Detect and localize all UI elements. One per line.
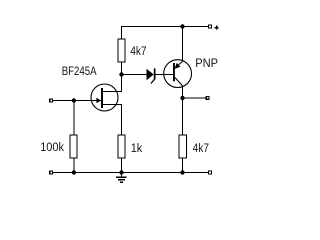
wire R1 to node <box>121 62 123 75</box>
transistor Q1 channel bar <box>101 88 103 108</box>
resistor R1 4k7 <box>118 39 125 62</box>
label + <box>215 26 219 30</box>
wire diode to base <box>156 74 174 76</box>
transistor Q2 base bar <box>173 63 175 81</box>
node junction top rail / emitter <box>180 24 184 28</box>
transistor Q1 gate arrow <box>96 98 101 104</box>
svg-text:PNP: PNP <box>195 58 218 70</box>
svg-text:4k7: 4k7 <box>130 45 146 58</box>
ground <box>116 173 126 184</box>
transistor Q1 drain lead <box>103 75 122 92</box>
svg-text:4k7: 4k7 <box>193 142 209 155</box>
terminal bottom left <box>50 171 53 174</box>
wire output tap <box>183 97 207 99</box>
svg-text:1k: 1k <box>131 142 143 154</box>
wire emitter to rail <box>182 26 184 61</box>
svg-text:BF245A: BF245A <box>62 65 98 78</box>
node drain/diode junction <box>119 72 123 76</box>
terminal bottom right <box>209 171 212 174</box>
terminal input <box>50 99 53 102</box>
diode D1 zener tail <box>151 79 155 83</box>
wire 100k column <box>73 101 75 136</box>
node output junction <box>180 96 184 100</box>
transistor Q2 emitter diagonal <box>175 61 183 68</box>
wire top rail V+ <box>121 26 208 28</box>
transistor Q2 circle <box>164 60 192 88</box>
terminal output <box>206 97 209 100</box>
node collector-rail junction <box>180 170 184 174</box>
node 100k-rail junction <box>72 170 76 174</box>
diode D1 cathode bar <box>154 68 156 79</box>
svg-text:100k: 100k <box>40 142 64 154</box>
wire R4 to rail <box>182 158 184 173</box>
transistor Q2 emitter arrow (PNP) <box>174 63 180 69</box>
resistor R3 100k <box>70 135 77 158</box>
node 1k-rail-ground junction <box>119 170 123 174</box>
terminal V+ <box>209 25 212 28</box>
resistor R4 4k7 <box>179 135 186 158</box>
wire bottom rail <box>53 172 208 174</box>
diode D1 anode triangle <box>147 69 154 81</box>
wire rail to R1 <box>121 26 123 39</box>
transistor Q1 source lead <box>103 105 122 136</box>
node gate/100k junction <box>72 98 76 102</box>
wire R2 to rail <box>121 158 123 173</box>
resistor R2 1k <box>118 135 125 158</box>
transistor Q1 JFET circle <box>91 84 118 111</box>
wire R3 to rail <box>73 158 75 173</box>
wire gate line <box>53 100 101 102</box>
transistor Q2 collector diagonal <box>175 77 183 86</box>
wire collector to R4 <box>182 86 184 135</box>
wire node to diode <box>122 74 147 76</box>
